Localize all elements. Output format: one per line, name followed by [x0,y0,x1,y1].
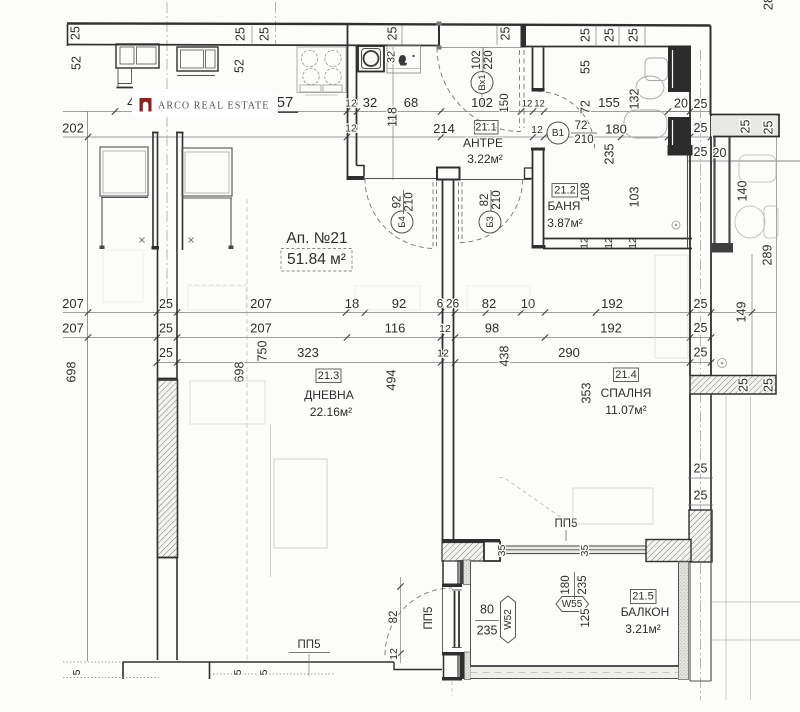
logo red glyph [140,98,152,112]
bottom wall right step [394,662,442,670]
kitchen cabinet A [116,44,159,68]
svg-text:25: 25 [159,346,173,360]
svg-text:25: 25 [761,121,775,135]
svg-text:22.16м²: 22.16м² [310,405,352,419]
svg-text:25: 25 [159,321,173,335]
right wall hatch block R1 [690,376,776,395]
svg-text:207: 207 [62,296,84,311]
svg-text:25: 25 [498,27,512,41]
PP5 hatch block right [646,540,691,562]
entry opening threshold line [439,47,521,49]
bathroom wall notch [525,168,533,179]
stove burners [301,50,317,66]
counter unit with faucet [387,46,421,73]
entry door leaf dashed [519,50,521,128]
svg-text:ПП5: ПП5 [298,639,321,651]
window W52 glazing [454,591,456,647]
svg-text:25: 25 [738,120,752,134]
label 21.1 antre [475,121,499,135]
PP5 white jamb block [484,542,500,562]
svg-text:25: 25 [694,121,708,135]
svg-text:150: 150 [499,93,511,112]
top wall inner line right [521,46,690,48]
bathroom sink [624,110,667,138]
right wall inner line [689,47,691,376]
svg-text:149: 149 [734,302,748,323]
building corner vertical x710 [710,26,712,116]
entry door Bx1 swing arc [437,48,521,132]
door B3 leaf dashed [458,182,460,240]
door tag Bx1 circle [471,72,493,94]
left wall hatch section [158,380,178,558]
svg-text:3.21м²: 3.21м² [625,622,661,636]
svg-text:5: 5 [232,669,244,675]
dim line L3 y161 right [688,160,800,162]
W52 hexagon tag [501,596,516,643]
svg-text:6: 6 [437,297,444,311]
svg-text:18: 18 [345,296,359,311]
wall piece left of balcony [442,560,444,584]
svg-text:12: 12 [439,323,451,335]
bathroom bottom wall [543,238,692,240]
svg-text:25: 25 [385,27,399,41]
axis centerline left x167 [166,2,168,302]
svg-text:12: 12 [345,97,357,109]
stove frame [297,47,346,93]
svg-text:12: 12 [627,237,639,249]
axis centerline top x275 [275,2,277,46]
neighbor line y161 [731,160,800,162]
svg-text:21.1: 21.1 [475,121,496,133]
right wall crossing ticks [688,477,713,479]
dim line L6 y362 [157,362,711,364]
svg-text:12: 12 [534,99,545,110]
svg-text:52: 52 [69,56,83,70]
bedroom furniture dashed [573,488,653,524]
bathroom door B1 swing arc [538,92,595,149]
svg-text:25: 25 [626,28,640,42]
svg-text:72: 72 [578,100,592,114]
svg-text:155: 155 [598,95,620,110]
svg-text:21.4: 21.4 [615,369,636,381]
svg-text:207: 207 [250,296,272,311]
top wall inner line left [67,45,439,46]
living/bedroom divider wall [442,180,444,541]
svg-text:W52: W52 [503,609,514,630]
counter edge below cabinet B [177,75,215,77]
svg-text:82: 82 [479,194,491,207]
svg-text:В1: В1 [552,128,565,139]
ticks on L5 [85,334,91,340]
svg-text:118: 118 [385,107,399,127]
svg-text:Ап. №21: Ап. №21 [286,230,347,247]
svg-text:102: 102 [471,50,483,69]
svg-text:21.3: 21.3 [318,370,339,382]
svg-text:25: 25 [257,27,271,41]
faint wardrobe outlines row [103,250,143,302]
bottom wall U step [123,662,210,679]
svg-text:25: 25 [736,378,750,392]
kitchen counter below cabinet A [118,68,132,87]
wall face line across door opening [442,587,444,652]
svg-text:125: 125 [580,608,592,627]
svg-text:32: 32 [363,95,377,110]
entry wall black cap x521 [521,24,527,48]
svg-text:202: 202 [62,120,84,135]
svg-text:102: 102 [471,95,493,110]
right wall outer line [710,115,712,376]
svg-text:52: 52 [232,59,246,73]
svg-text:68: 68 [404,95,418,110]
balcony parapet bottom [471,667,689,679]
PP5 sill dark edge [442,539,501,543]
right wall hatch block R2 [689,510,712,562]
balcony parapet left top [464,560,471,585]
svg-text:92: 92 [392,196,404,209]
door B4 swing arc [365,179,435,249]
bedroom window band [500,545,646,555]
svg-text:5: 5 [258,669,270,675]
svg-text:82: 82 [388,611,400,624]
svg-text:57: 57 [277,94,294,111]
svg-text:БАНЯ: БАНЯ [548,199,581,213]
label 21.2 banya [552,184,578,198]
bathroom right wall cap [668,145,693,156]
svg-text:25: 25 [578,28,592,42]
svg-text:82: 82 [482,296,496,311]
door B4 leaf dashed [432,182,434,249]
svg-text:235: 235 [477,623,498,637]
right wall lower section [689,394,691,510]
svg-text:ПП5: ПП5 [423,607,435,630]
kitchen cabinet B [177,47,218,71]
neighbor toilet [735,206,765,238]
top wall cavity separators [251,26,253,46]
svg-text:220: 220 [483,50,495,69]
svg-text:25: 25 [694,488,708,502]
svg-text:210: 210 [491,190,503,209]
stove knobs [300,85,321,92]
faucet symbol [399,55,407,66]
svg-text:Б3: Б3 [485,216,496,228]
svg-text:494: 494 [384,370,398,391]
hallway floor line left [365,178,437,180]
ticks on L2 [85,134,91,140]
living room furniture [270,424,272,577]
svg-text:698: 698 [64,362,78,383]
toilet [645,58,668,81]
svg-text:192: 192 [601,296,623,311]
svg-text:25: 25 [159,297,173,311]
svg-text:750: 750 [255,341,269,362]
svg-text:290: 290 [558,345,580,360]
wall piece below balcony door [443,656,445,678]
svg-text:289: 289 [760,245,774,266]
svg-text:192: 192 [600,320,622,335]
bathroom left wall upper stub [532,48,534,89]
living room bottom wall [123,661,395,663]
living room left wall lower [157,248,159,660]
top wall outer line [67,24,711,26]
dim line L4 y312 [63,312,776,314]
svg-text:3.87м²: 3.87м² [547,216,583,230]
divider T-cap [437,168,460,180]
label 51.84 m2 with dashed box [281,249,352,272]
svg-text:20: 20 [674,96,688,110]
svg-text:20: 20 [713,146,727,160]
drain symbol [672,221,680,229]
svg-text:21.2: 21.2 [554,184,575,196]
svg-text:132: 132 [627,89,641,110]
svg-text:ДНЕВНА: ДНЕВНА [304,388,353,402]
svg-text:Вх1: Вх1 [477,74,488,90]
svg-text:32: 32 [385,51,397,63]
balcony parapet left bottom [465,652,471,680]
balcony door PP5 swing arc [385,588,452,655]
neighbor window 2 [182,148,232,196]
svg-text:12: 12 [388,648,400,660]
shaft bottom cap [712,243,733,253]
svg-text:ARCO REAL ESTATE: ARCO REAL ESTATE [158,100,269,111]
svg-text:103: 103 [627,187,641,208]
neighbor fixture top [739,155,776,182]
svg-text:323: 323 [297,345,319,360]
W55 hexagon tag [556,597,589,612]
svg-text:12: 12 [437,347,449,359]
axis centerline right x700 [700,50,702,700]
svg-text:26: 26 [446,297,460,311]
svg-text:235: 235 [577,575,589,594]
bathroom right wall black [668,46,691,93]
label 21.3 dnevna [316,369,341,383]
svg-text:210: 210 [404,192,416,211]
top wall left end [67,24,69,47]
neighbor lines bottom right [711,601,800,603]
shaft wall left [713,137,715,251]
svg-text:25: 25 [694,345,708,359]
door tag B1 circle [547,122,569,144]
svg-text:БАЛКОН: БАЛКОН [621,605,670,619]
label 21.4 spalnya [614,368,639,382]
svg-text:11.07м²: 11.07м² [605,403,646,417]
svg-text:5: 5 [71,669,83,675]
kitchen dim extension x393 [392,47,394,180]
svg-text:12: 12 [345,122,357,134]
divider wall foot [357,166,365,177]
svg-text:698: 698 [232,362,246,383]
svg-text:12: 12 [531,124,543,136]
svg-text:3.22м²: 3.22м² [467,152,503,166]
svg-text:10: 10 [521,296,535,311]
svg-text:25: 25 [761,378,775,392]
svg-text:25: 25 [694,297,708,311]
svg-text:25: 25 [694,321,708,335]
balcony door black cap lower [442,652,462,656]
svg-text:25: 25 [68,26,82,40]
kitchen wall end cap x439 [438,22,440,49]
svg-text:28: 28 [760,0,775,10]
svg-text:214: 214 [433,121,455,136]
shaft wall right [728,137,730,251]
right dim extension x776 [776,114,778,375]
dim extension x247 dashed [246,199,248,661]
door B3 swing arc [460,180,523,243]
balcony parapet right [679,562,689,680]
svg-text:25: 25 [233,27,247,41]
left dim extension x88 [87,111,89,661]
dim line L2 y137 [63,136,711,138]
PP5 hatch block left [442,543,484,562]
svg-text:12: 12 [522,99,533,110]
kitchen divider wall x347-357 [347,24,349,177]
shaft line below bathroom wall [687,156,689,249]
balcony inner boundary [471,562,679,668]
door tag B4 circle [391,211,413,233]
svg-text:51.84 м²: 51.84 м² [287,251,346,268]
svg-text:207: 207 [62,320,84,335]
svg-text:235: 235 [602,144,616,165]
hallway floor line right [460,179,532,181]
party wall A [152,133,154,247]
svg-text:25: 25 [602,28,616,42]
svg-text:108: 108 [580,182,592,201]
right dim extension x752 [751,254,753,377]
bottom dotted dims left [63,661,123,663]
logo white band [132,92,278,117]
svg-text:55: 55 [578,60,592,74]
ticks on L1 [112,108,118,114]
dim line L5 y337 [63,337,711,339]
svg-text:12: 12 [603,237,615,249]
bathroom left wall lower [531,148,545,151]
kitchen sink unit [358,46,384,72]
dim line L1 y112 [63,111,711,113]
svg-text:25: 25 [694,461,708,475]
svg-text:25: 25 [694,97,708,111]
svg-text:80: 80 [480,602,494,616]
svg-text:Б4: Б4 [397,216,408,228]
svg-text:СПАЛНЯ: СПАЛНЯ [601,386,652,400]
svg-text:210: 210 [574,134,593,146]
svg-text:180: 180 [605,121,627,136]
svg-text:180: 180 [560,575,572,594]
dim 20 in wall gap [668,111,691,113]
svg-text:35: 35 [496,545,508,557]
ticks on L4 [85,309,91,315]
svg-text:92: 92 [392,296,406,311]
svg-text:140: 140 [735,181,749,202]
svg-text:207: 207 [250,320,272,335]
neighbor drain symbol [718,359,727,368]
svg-text:353: 353 [579,383,593,404]
svg-text:35: 35 [579,545,591,557]
label 21.5 balkon [631,590,657,604]
svg-text:21.5: 21.5 [632,590,653,602]
bedroom wardrobe faint [655,255,688,358]
x marks [140,238,145,243]
svg-text:12: 12 [578,237,590,249]
svg-text:438: 438 [497,346,511,367]
svg-text:АНТРЕ: АНТРЕ [463,136,503,150]
svg-text:98: 98 [485,320,499,335]
corridor strip shaded [711,116,779,137]
door dim line x400 [400,577,402,663]
party wall B [176,133,178,660]
ticks on L6 [154,359,160,365]
door tag B3 circle [479,211,501,233]
living room faint dashes [188,284,247,286]
right wall below hatch to balcony [689,562,691,681]
svg-text:72: 72 [575,120,588,132]
svg-text:116: 116 [385,320,406,335]
neighbor window 1 [100,147,148,196]
svg-text:25: 25 [694,145,708,159]
